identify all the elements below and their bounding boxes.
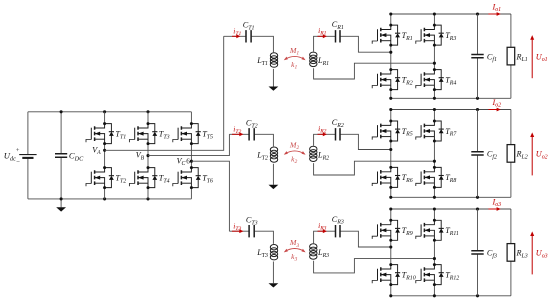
node V_A bbox=[103, 149, 106, 152]
wire rectifier 2 top rail bbox=[391, 109, 511, 111]
wire V_A to channel 1 bbox=[105, 36, 224, 150]
inductor L_T3 bbox=[270, 245, 277, 250]
wire channel 3 secondary top bbox=[314, 231, 335, 243]
current arrow i_T2 bbox=[232, 133, 240, 135]
current arrow i_R3 bbox=[318, 230, 324, 232]
junction dots rectifier 3 bbox=[389, 207, 392, 210]
wire rectifier 3 leg A bbox=[390, 209, 392, 220]
junction dots rectifier 2 bbox=[389, 108, 392, 111]
wire rectifier 3 bottom rail bbox=[391, 295, 511, 297]
inductor L_R2 bbox=[310, 146, 317, 151]
wire rectifier 2 leg A bbox=[390, 110, 392, 122]
svg-text:+: + bbox=[16, 147, 20, 154]
wire rectifier 1 top rail bbox=[391, 13, 511, 15]
junction dots DC rails bbox=[60, 110, 63, 113]
current arrow i_R2 bbox=[318, 133, 324, 135]
wire rectifier 3 top rail bbox=[391, 208, 511, 210]
wire inverter leg 2 bbox=[147, 112, 149, 124]
ground bbox=[269, 283, 279, 287]
capacitor C_T2 bbox=[249, 128, 254, 140]
capacitor C_R1 bbox=[336, 30, 341, 42]
voltage arrow U_o1 bbox=[531, 39, 533, 78]
transistor T_T3 bbox=[129, 124, 157, 144]
transistor T_R3 bbox=[416, 25, 444, 45]
capacitor C_f3 bbox=[477, 209, 479, 251]
current arrow i_T3 bbox=[232, 230, 240, 232]
resistor R_L2 bbox=[510, 110, 512, 145]
wire channel 1 secondary top bbox=[314, 36, 335, 51]
inductor L_T1 bbox=[270, 53, 277, 58]
transistor T_R8 bbox=[416, 167, 444, 187]
svg-text:−: − bbox=[16, 159, 20, 166]
capacitor C_R3 bbox=[336, 225, 341, 237]
coupling M_3 k_3 bbox=[285, 249, 305, 252]
wire V_B to channel 2 bbox=[148, 134, 229, 155]
inductor L_R1 bbox=[310, 52, 317, 57]
transistor T_T5 bbox=[173, 124, 201, 144]
wire channel 2 primary top bbox=[229, 133, 248, 135]
coupling M_1 k_1 bbox=[285, 56, 305, 59]
node V_B bbox=[146, 154, 149, 157]
wire rectifier 1 leg B bbox=[433, 14, 435, 25]
svg-text:6: 6 bbox=[186, 158, 190, 166]
transistor T_R10 bbox=[372, 265, 400, 285]
ground bbox=[269, 185, 279, 189]
capacitor C_T1 bbox=[246, 30, 251, 42]
transistor T_R7 bbox=[416, 121, 444, 141]
wire to ground bbox=[272, 69, 274, 87]
wire to ground bbox=[272, 164, 274, 185]
capacitor C_DC bbox=[60, 112, 62, 154]
current arrow I_o2 bbox=[488, 109, 497, 111]
current arrow I_o3 bbox=[488, 208, 497, 210]
transistor T_R6 bbox=[372, 167, 400, 187]
transistor T_T2 bbox=[86, 168, 114, 188]
transistor T_T4 bbox=[129, 168, 157, 188]
transistor T_R9 bbox=[372, 220, 400, 240]
wire bottom rail bbox=[28, 198, 192, 200]
wire inverter leg 3 bbox=[190, 112, 192, 124]
transistor T_R12 bbox=[416, 265, 444, 285]
capacitor C_f1 bbox=[477, 14, 479, 55]
wire channel 1 primary top bbox=[224, 35, 246, 37]
transistor T_T6 bbox=[173, 168, 201, 188]
wire channel 2 secondary top bbox=[314, 134, 335, 145]
resistor R_L3 bbox=[510, 209, 512, 244]
junction dots rectifier 1 bbox=[389, 12, 392, 15]
transistor T_R11 bbox=[416, 220, 444, 240]
inductor L_R3 bbox=[310, 244, 317, 249]
transistor T_R5 bbox=[372, 121, 400, 141]
transistor T_R4 bbox=[416, 70, 444, 90]
voltage arrow U_o3 bbox=[531, 235, 533, 274]
ground bbox=[60, 199, 62, 207]
wire rectifier 3 leg B bbox=[433, 209, 435, 220]
voltage arrow U_o2 bbox=[531, 136, 533, 175]
wire channel 3 secondary bottom bbox=[314, 259, 435, 273]
wire rectifier 1 bottom rail bbox=[391, 97, 511, 99]
capacitor C_R2 bbox=[336, 128, 341, 140]
coupling M_2 k_2 bbox=[285, 151, 305, 154]
wire top rail bbox=[28, 111, 192, 113]
wire rectifier 1 leg A bbox=[390, 14, 392, 25]
transistor T_R1 bbox=[372, 25, 400, 45]
current arrow i_T1 bbox=[232, 35, 237, 37]
wire rectifier 2 leg B bbox=[433, 110, 435, 122]
wire channel 3 primary top bbox=[229, 230, 248, 232]
voltage source U_dc bbox=[27, 112, 29, 155]
wire rectifier 2 bottom rail bbox=[391, 196, 511, 198]
capacitor C_f2 bbox=[477, 110, 479, 152]
current arrow I_o1 bbox=[488, 13, 497, 15]
ground bbox=[269, 87, 279, 91]
inductor L_T2 bbox=[270, 147, 277, 152]
wire inverter leg 1 bbox=[104, 112, 106, 124]
wire to ground bbox=[272, 262, 274, 284]
wire channel 2 secondary bottom bbox=[314, 161, 435, 175]
node V_C bbox=[190, 160, 193, 163]
transistor T_R2 bbox=[372, 70, 400, 90]
transistor T_T1 bbox=[86, 124, 114, 144]
wire V_C to channel 3 bbox=[191, 161, 229, 231]
current arrow i_R1 bbox=[318, 35, 324, 37]
wire channel 1 secondary bottom bbox=[314, 63, 435, 79]
capacitor C_T3 bbox=[249, 225, 254, 237]
resistor R_L1 bbox=[510, 14, 512, 47]
